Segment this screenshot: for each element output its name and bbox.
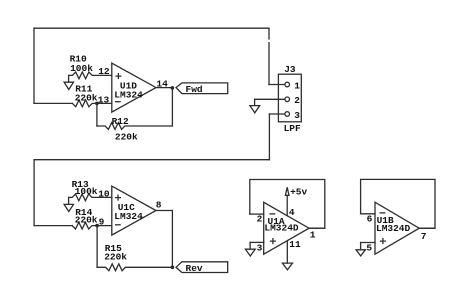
wire loop1 left vertical (33, 28, 35, 103)
svg-text:10: 10 (98, 188, 110, 199)
wire U1A pin4 (286, 195, 288, 215)
svg-text:8: 8 (156, 200, 162, 211)
pin number 13 (98, 95, 110, 106)
ground (J3 pin2) (250, 99, 260, 113)
wire U1C output (156, 210, 172, 212)
pin number 14 (156, 79, 168, 90)
pin 2 circle J3 (285, 95, 300, 106)
svg-text:7: 7 (421, 231, 427, 242)
svg-text:220k: 220k (75, 92, 98, 103)
svg-text:+5v: +5v (290, 186, 307, 197)
wire R14 input from loop2 (34, 225, 72, 227)
svg-text:11: 11 (289, 239, 301, 250)
pin number 7 (421, 231, 427, 242)
wire U1A pin3 lead (250, 241, 264, 243)
wire J3 pin1 lead (269, 84, 285, 86)
node U1C output junction (171, 266, 175, 270)
pin number 3 (257, 242, 263, 253)
svg-text:220k: 220k (115, 132, 138, 143)
svg-text:LPF: LPF (284, 123, 301, 134)
op-amp U1A (264, 202, 309, 254)
ground (U1A pin3) (245, 242, 255, 256)
svg-text:2: 2 (294, 95, 300, 106)
resistor R11 (72, 84, 111, 107)
wire U1B pin5 lead (361, 242, 375, 244)
pin number 12 (98, 66, 110, 77)
svg-text:13: 13 (98, 95, 110, 106)
svg-text:2: 2 (257, 214, 263, 225)
wire loop2 left vertical (33, 160, 35, 226)
resistor R14 (72, 207, 112, 229)
svg-text:1: 1 (294, 80, 300, 91)
pin number 9 (99, 216, 105, 227)
pin number 2 (257, 214, 263, 225)
svg-text:R12: R12 (112, 116, 129, 127)
wire loop2 right vertical (268, 114, 270, 160)
pin number 6 (367, 214, 373, 225)
svg-text:12: 12 (98, 66, 110, 77)
wire U1D output drop (171, 88, 173, 126)
pin number 5 (366, 243, 372, 254)
node pin13 junction (95, 102, 99, 106)
svg-text:1: 1 (310, 230, 316, 241)
resistor R15 (97, 243, 172, 271)
svg-text:6: 6 (367, 214, 373, 225)
wire R15 feedback left drop (96, 226, 98, 268)
connector J3 (278, 64, 301, 134)
svg-text:220k: 220k (104, 252, 127, 263)
wire R11 input from loop1 (34, 102, 72, 104)
net label Fwd flag (176, 83, 228, 95)
ground (R13) (64, 197, 73, 211)
resistor R10 (69, 53, 112, 79)
svg-text:LM324: LM324 (114, 211, 143, 222)
wire U1D output (156, 87, 172, 89)
wire U1A feedback box (250, 180, 325, 229)
pin number 11 (289, 239, 301, 250)
svg-text:Rev: Rev (186, 263, 203, 274)
wire U1B feedback box (361, 179, 435, 228)
pin number 10 (98, 188, 110, 199)
wire U1B pin6 lead (361, 213, 375, 215)
svg-text:LM324D: LM324D (264, 223, 299, 234)
ground (U1B pin5) (356, 243, 365, 256)
svg-text:100k: 100k (70, 63, 93, 74)
svg-text:100k: 100k (75, 186, 98, 197)
pin number 4 (289, 207, 295, 218)
net label Rev flag (176, 262, 228, 274)
svg-text:Fwd: Fwd (186, 84, 203, 95)
svg-text:9: 9 (99, 216, 105, 227)
pin number 1 (310, 230, 316, 241)
wire U1C output drop (171, 211, 173, 268)
svg-text:3: 3 (294, 110, 300, 121)
pin 3 circle J3 (285, 110, 300, 121)
wire U1B output (419, 227, 435, 229)
svg-text:J3: J3 (284, 64, 296, 75)
wire J3 pin2 lead (255, 98, 285, 100)
svg-text:220k: 220k (75, 214, 98, 225)
pin number 8 (156, 200, 162, 211)
wire R12 feedback left drop (96, 103, 98, 126)
svg-text:LM324D: LM324D (376, 223, 411, 234)
wire U1A pin11 (286, 241, 288, 263)
resistor R12 (97, 116, 172, 143)
op-amp U1B (375, 202, 419, 254)
svg-text:4: 4 (289, 207, 295, 218)
node pin9 junction (95, 224, 99, 228)
resistor R13 (69, 179, 112, 201)
op-amp U1D (112, 63, 156, 112)
power +5v arrow (285, 186, 307, 197)
wire J3 pin3 lead (269, 113, 285, 115)
wire loop1 top horizontal (34, 27, 269, 29)
ground (U1A pin11) (282, 263, 292, 270)
wire loop1 right vertical upper (268, 28, 270, 39)
pin 1 circle J3 (285, 80, 300, 91)
ground (R10) (64, 75, 73, 89)
wire U1A pin2 lead (250, 213, 264, 215)
svg-text:5: 5 (366, 243, 372, 254)
wire loop1 right vertical lower (268, 43, 270, 85)
wire loop2 top horizontal (34, 159, 269, 161)
node U1D output junction (171, 86, 175, 90)
svg-text:3: 3 (257, 242, 263, 253)
svg-text:LM324: LM324 (114, 90, 143, 101)
wire U1A output (309, 227, 325, 229)
op-amp U1C (112, 186, 156, 235)
